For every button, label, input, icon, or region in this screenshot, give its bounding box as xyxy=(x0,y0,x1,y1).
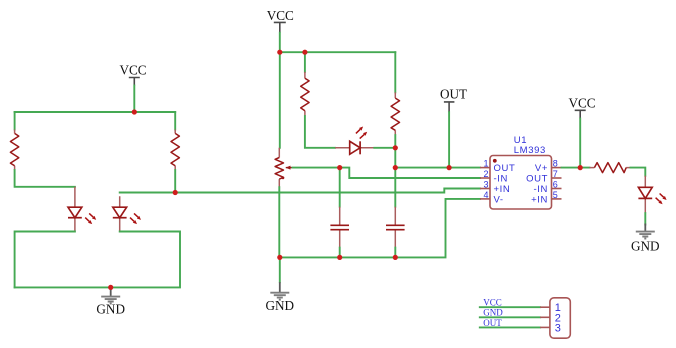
potentiometer RV1 xyxy=(275,148,292,187)
wire VCC middle vertical xyxy=(279,33,281,53)
junction GND left xyxy=(108,285,113,290)
resistor R3 xyxy=(301,72,309,116)
wire R4 top xyxy=(394,52,396,92)
pin 6 stub xyxy=(552,188,562,190)
wire pin8 to R5 xyxy=(562,167,590,169)
connector J1 xyxy=(550,298,570,338)
pin J1-1 stub xyxy=(540,306,550,308)
svg-text:-IN: -IN xyxy=(494,174,508,185)
wire R2 top xyxy=(174,112,176,130)
ground GND middle xyxy=(266,282,295,313)
wire VCC right vertical xyxy=(579,119,581,168)
pin J1-2 stub xyxy=(540,316,550,318)
wire R5 to LED xyxy=(631,168,646,176)
wire +IN long xyxy=(120,189,480,193)
junction output net xyxy=(393,165,398,170)
pin J1-3 stub xyxy=(540,326,550,328)
svg-text:1: 1 xyxy=(483,159,488,169)
wire net OUT xyxy=(480,326,540,328)
svg-text:3: 3 xyxy=(555,322,561,334)
svg-text:+IN: +IN xyxy=(494,184,511,195)
wire OUT vertical xyxy=(448,112,450,167)
wire VCC left vertical xyxy=(133,86,135,113)
pin 4 stub xyxy=(480,198,490,200)
resistor R4 xyxy=(391,92,399,135)
wire GND middle stem xyxy=(279,257,281,282)
svg-text:OUT: OUT xyxy=(526,174,548,185)
wire R3 bottom to LED xyxy=(305,116,335,148)
wire R2 bottom xyxy=(174,170,176,193)
wire left top rail xyxy=(15,111,176,113)
pin 8 stub xyxy=(552,167,562,169)
svg-text:7: 7 xyxy=(553,169,558,179)
wire D1 bottom loop xyxy=(15,232,75,288)
svg-text:GND: GND xyxy=(483,308,503,318)
svg-text:VCC: VCC xyxy=(483,298,502,308)
capacitor C2 xyxy=(386,207,405,248)
pin 7 stub xyxy=(552,177,562,179)
wire R3 top xyxy=(304,52,306,72)
pin 2 stub xyxy=(480,177,490,179)
wire middle top rail xyxy=(280,51,396,53)
wire bottom rail middle xyxy=(280,199,480,258)
junction wiper C1 xyxy=(337,165,342,170)
wire R4 bottom xyxy=(394,135,396,148)
wire C1 top xyxy=(339,168,341,207)
junction OUT xyxy=(447,165,452,170)
pin 3 stub xyxy=(480,188,490,190)
junction VCC left xyxy=(132,109,137,114)
pin 1 stub xyxy=(480,167,490,169)
wire C2 bottom xyxy=(394,248,396,258)
svg-text:VCC: VCC xyxy=(119,63,146,78)
wire wiper xyxy=(293,167,340,169)
wire LED to GND right xyxy=(644,213,646,225)
ground GND left xyxy=(96,288,125,316)
svg-text:VCC: VCC xyxy=(568,95,595,110)
power flag VCC middle xyxy=(267,8,294,33)
wire R1 bottom xyxy=(15,170,75,187)
junction VCC right xyxy=(578,165,583,170)
resistor R5 xyxy=(590,163,631,173)
wire LED to R4 xyxy=(374,147,395,149)
junction rail C2 xyxy=(393,255,398,260)
power flag OUT xyxy=(440,86,467,112)
svg-text:5: 5 xyxy=(553,190,558,200)
svg-text:8: 8 xyxy=(553,159,558,169)
svg-text:4: 4 xyxy=(483,190,488,200)
svg-text:+IN: +IN xyxy=(531,195,548,206)
wire pot bottom xyxy=(278,187,280,257)
svg-text:V-: V- xyxy=(494,195,504,206)
wire wiper to -IN xyxy=(340,168,480,178)
ground GND right xyxy=(631,224,660,254)
svg-text:OUT: OUT xyxy=(494,163,516,174)
svg-text:LM393: LM393 xyxy=(514,145,546,156)
resistor R2 xyxy=(171,130,179,171)
svg-text:V+: V+ xyxy=(535,163,548,174)
LED D2 xyxy=(113,196,141,231)
wire VCC to pot xyxy=(279,52,281,148)
junction R3 top xyxy=(302,50,307,55)
capacitor C1 xyxy=(330,207,349,248)
wire output to pin1 xyxy=(395,167,480,169)
svg-text:-IN: -IN xyxy=(534,184,548,195)
svg-text:GND: GND xyxy=(266,298,295,313)
svg-text:GND: GND xyxy=(631,238,660,253)
power flag VCC left xyxy=(119,63,146,86)
pin 5 stub xyxy=(552,198,562,200)
LED D2 middle xyxy=(335,127,374,155)
wire net GND xyxy=(480,316,540,318)
wire net VCC xyxy=(480,306,540,308)
power flag VCC right xyxy=(568,95,595,118)
junction rail GND xyxy=(277,255,282,260)
svg-text:VCC: VCC xyxy=(267,8,294,23)
junction LED cathode xyxy=(393,145,398,150)
wire left bottom rail xyxy=(15,232,180,288)
junction VCC middle xyxy=(277,50,282,55)
op-amp U1 LM393 xyxy=(490,135,552,209)
svg-text:OUT: OUT xyxy=(483,318,502,328)
svg-text:3: 3 xyxy=(483,180,488,190)
wire output node vertical xyxy=(394,148,396,207)
svg-text:6: 6 xyxy=(553,180,558,190)
LED D1 xyxy=(68,187,96,232)
resistor R1 xyxy=(10,130,18,171)
wire C1 bottom xyxy=(339,248,341,258)
svg-text:GND: GND xyxy=(96,301,125,316)
LED D3 xyxy=(638,176,666,213)
svg-text:OUT: OUT xyxy=(440,86,467,101)
svg-text:2: 2 xyxy=(483,169,488,179)
junction rail C1 xyxy=(337,255,342,260)
junction R2 bottom xyxy=(173,190,178,195)
wire R1 top xyxy=(14,112,16,130)
